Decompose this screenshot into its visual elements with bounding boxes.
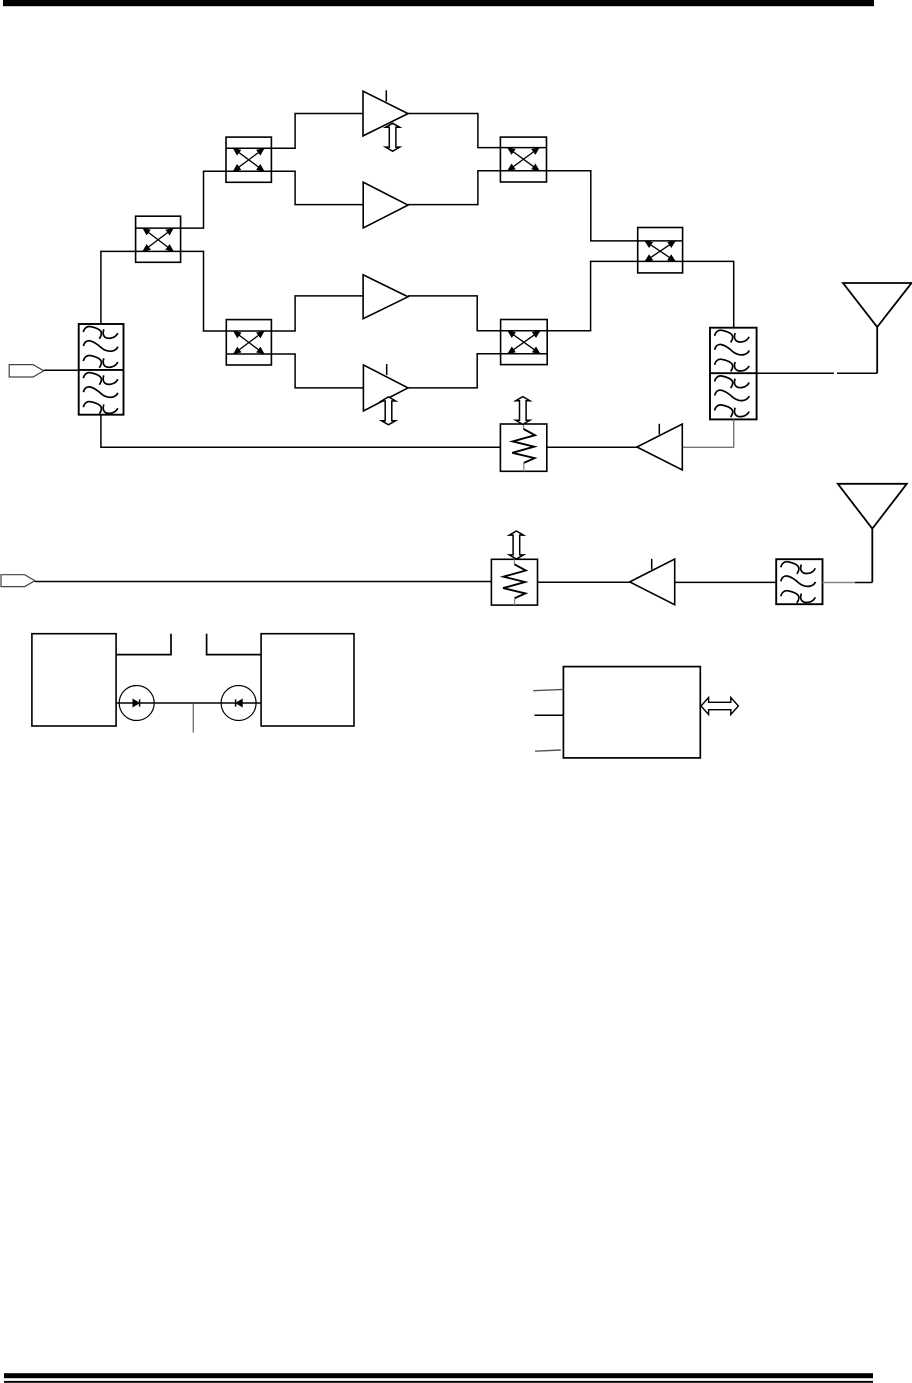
gain adjust arrow for A4 xyxy=(381,397,395,425)
amplifier A4 xyxy=(363,364,408,411)
wire xyxy=(35,581,492,583)
wire xyxy=(271,171,363,204)
wire xyxy=(44,369,79,371)
wire xyxy=(757,372,834,374)
header bar xyxy=(3,0,874,6)
wire xyxy=(101,251,136,324)
circulator D1 xyxy=(119,686,154,721)
bracket from U1 xyxy=(116,634,171,655)
pin stub 1 xyxy=(533,689,563,690)
filter FL3 xyxy=(776,559,822,604)
amplifier A6 xyxy=(630,559,675,605)
level adjust arrow for AT2 xyxy=(509,531,523,559)
box U2 xyxy=(261,634,354,726)
antenna AN1 xyxy=(843,283,912,373)
wire xyxy=(823,582,856,584)
wire xyxy=(682,419,733,447)
wire xyxy=(271,296,363,331)
wire xyxy=(408,171,500,205)
gain adjust arrow for A1 xyxy=(386,123,400,151)
wire xyxy=(408,114,500,148)
wire xyxy=(837,372,877,374)
duplex filter FL1 xyxy=(79,324,124,415)
attenuator AT2 xyxy=(491,559,537,605)
hybrid coupler X5 xyxy=(638,228,683,273)
wire xyxy=(181,171,226,228)
center stub xyxy=(192,704,194,733)
amplifier A5 (return) xyxy=(637,424,682,470)
pin stub 2 xyxy=(535,714,564,716)
wire xyxy=(408,296,501,331)
antenna AN2 xyxy=(838,484,907,583)
wire xyxy=(271,114,363,149)
amplifier A2 xyxy=(363,182,408,228)
duplex filter FL2 xyxy=(710,328,757,420)
wire xyxy=(675,581,777,583)
hybrid coupler X3 xyxy=(226,320,271,365)
hybrid coupler X1 xyxy=(136,216,181,262)
amplifier A1 xyxy=(363,90,408,136)
connector J1 (left input) xyxy=(9,365,44,377)
wire xyxy=(408,354,501,388)
bus arrow xyxy=(701,698,738,715)
amplifier A3 xyxy=(363,275,408,319)
wire xyxy=(547,261,638,330)
wire xyxy=(271,354,363,388)
footer thin rule xyxy=(4,1381,873,1383)
pin stub 3 xyxy=(535,750,561,751)
wire xyxy=(101,415,501,448)
wire xyxy=(547,171,638,241)
hybrid coupler X6 xyxy=(501,320,548,365)
wire xyxy=(547,446,637,448)
wire xyxy=(181,251,227,331)
wire xyxy=(116,702,261,704)
box U1 xyxy=(32,634,116,726)
wire xyxy=(538,581,630,583)
hybrid coupler X4 xyxy=(500,137,546,182)
connector J2 (left input) xyxy=(1,575,35,587)
footer thick rule xyxy=(4,1373,873,1378)
level adjust arrow for AT1 xyxy=(516,397,530,425)
hybrid coupler X2 xyxy=(226,137,271,182)
circulator D2 xyxy=(221,686,256,721)
bracket from U2 xyxy=(207,634,262,655)
attenuator AT1 xyxy=(500,424,546,471)
box U3 xyxy=(563,667,700,758)
wire xyxy=(683,261,734,327)
wire xyxy=(855,582,872,584)
